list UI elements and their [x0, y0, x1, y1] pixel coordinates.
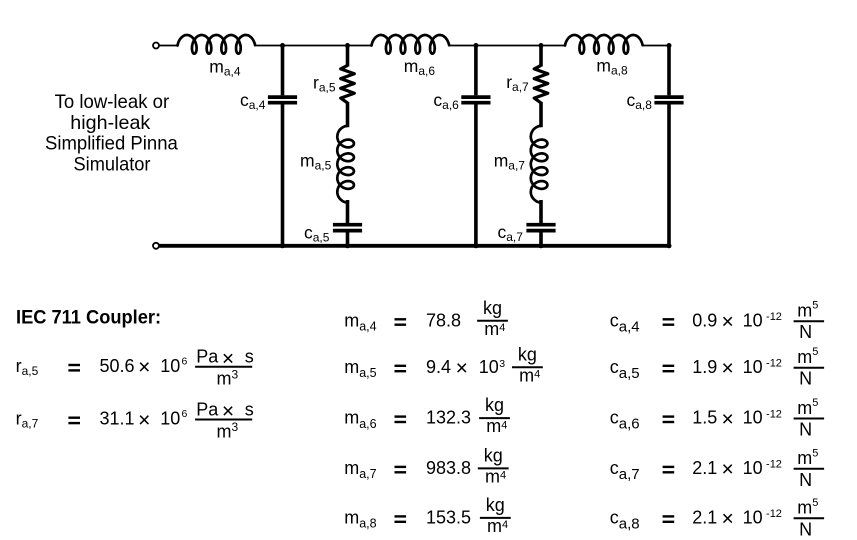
svg-text:×: × [721, 408, 733, 431]
svg-text:31.1: 31.1 [100, 409, 135, 429]
svg-text:Pa: Pa [196, 347, 219, 367]
svg-text:×: × [721, 311, 733, 334]
svg-text:132.3: 132.3 [426, 408, 471, 428]
svg-text:kg: kg [518, 344, 537, 364]
svg-text:×: × [138, 356, 150, 379]
svg-text:×: × [456, 357, 468, 380]
svg-text:high-leak: high-leak [70, 112, 150, 134]
svg-text:×: × [721, 508, 733, 531]
svg-text:s: s [245, 399, 254, 419]
svg-text:IEC 711 Coupler:: IEC 711 Coupler: [16, 307, 161, 329]
svg-text:×: × [138, 409, 150, 432]
svg-text:N: N [799, 470, 812, 490]
svg-text:78.8: 78.8 [426, 310, 461, 330]
svg-text:Pa: Pa [196, 399, 219, 419]
svg-text:kg: kg [484, 446, 503, 466]
svg-text:9.4: 9.4 [426, 357, 451, 377]
svg-text:153.5: 153.5 [426, 507, 471, 527]
svg-text:×: × [721, 357, 733, 380]
svg-text:kg: kg [483, 298, 502, 318]
svg-text:s: s [245, 347, 254, 367]
svg-text:1.9: 1.9 [692, 357, 717, 377]
svg-text:2.1: 2.1 [692, 507, 717, 527]
svg-text:2.1: 2.1 [692, 458, 717, 478]
svg-text:N: N [799, 322, 812, 342]
svg-text:kg: kg [485, 395, 504, 415]
svg-text:N: N [799, 369, 812, 389]
svg-text:×: × [721, 458, 733, 481]
svg-text:To low-leak or: To low-leak or [55, 91, 170, 113]
svg-text:N: N [799, 519, 812, 539]
svg-text:Simplified Pinna: Simplified Pinna [45, 133, 178, 155]
svg-text:Simulator: Simulator [74, 153, 151, 175]
svg-text:1.5: 1.5 [692, 408, 717, 428]
svg-text:kg: kg [486, 495, 505, 515]
svg-text:983.8: 983.8 [426, 458, 471, 478]
svg-text:N: N [799, 420, 812, 440]
svg-text:0.9: 0.9 [692, 310, 717, 330]
svg-text:50.6: 50.6 [100, 356, 135, 376]
